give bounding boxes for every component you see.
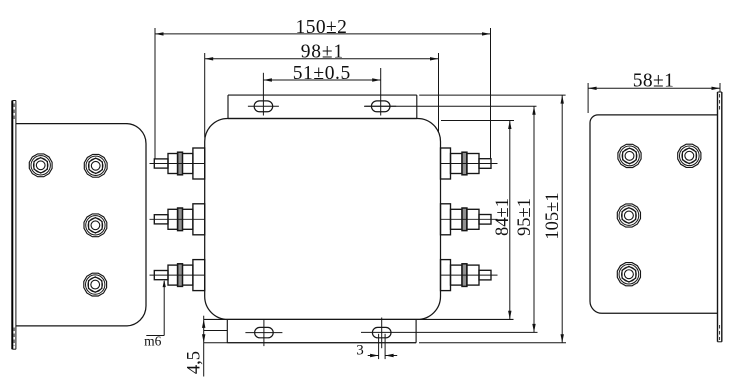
svg-text:4,5: 4,5 <box>185 351 205 374</box>
svg-text:51±0.5: 51±0.5 <box>293 63 351 84</box>
svg-text:105±1: 105±1 <box>543 192 563 239</box>
svg-text:3: 3 <box>356 343 364 359</box>
svg-text:58±1: 58±1 <box>633 71 675 92</box>
svg-text:84±1: 84±1 <box>493 198 513 236</box>
svg-text:150±2: 150±2 <box>296 17 348 38</box>
svg-text:95±1: 95±1 <box>515 198 535 236</box>
svg-text:98±1: 98±1 <box>301 42 344 63</box>
svg-text:m6: m6 <box>144 334 162 349</box>
